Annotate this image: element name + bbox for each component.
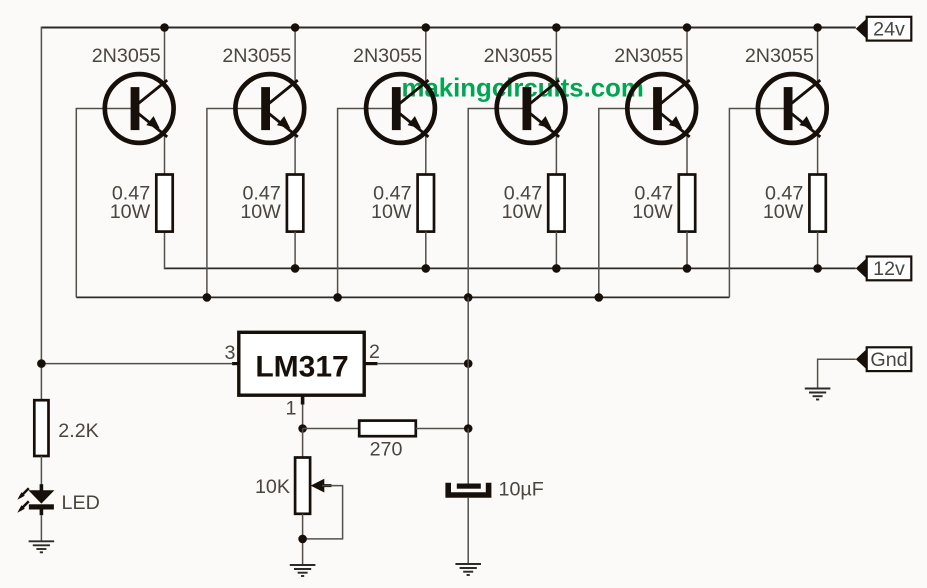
- label R2 0.47 10W: [240, 183, 281, 224]
- wire pin2 node to adj node: [467, 364, 469, 429]
- resistor R8 2.2K: [34, 400, 48, 456]
- resistor R3 0.47 10W: [418, 175, 434, 232]
- wire Q2 emitter: [294, 134, 296, 174]
- wire pot top: [302, 429, 304, 458]
- wire Q3 collector: [425, 28, 427, 83]
- svg-text:LM317: LM317: [255, 351, 348, 384]
- junction Q6 collector on 24v rail: [813, 23, 822, 32]
- resistor R5 0.47 10W: [679, 175, 695, 232]
- wire Q1 emitter: [164, 134, 166, 174]
- wire Q4 base: [468, 109, 527, 298]
- capacitor C1 10uF: [448, 483, 488, 495]
- junction Q5 base on base bus: [595, 293, 604, 302]
- svg-text:10W: 10W: [240, 201, 281, 223]
- junction Q1 collector on 24v rail: [160, 23, 169, 32]
- svg-text:2N3055: 2N3055: [745, 45, 814, 67]
- regulator U1 LM317: [239, 332, 364, 395]
- wire capacitor to ground: [467, 498, 469, 564]
- wire pin 3 to left vertical: [41, 363, 232, 365]
- wire R8 to LED: [40, 456, 42, 491]
- svg-text:2N3055: 2N3055: [614, 45, 683, 67]
- wire base bus to pin2 node: [467, 297, 469, 363]
- terminal Gnd: [856, 347, 912, 371]
- wire R7 to adj node: [416, 428, 468, 430]
- svg-text:12v: 12v: [873, 258, 905, 280]
- LED D1: [17, 484, 54, 515]
- wire LED to ground: [40, 515, 42, 541]
- junction R6 on 12v rail: [813, 264, 822, 273]
- label R3 0.47 10W: [371, 183, 412, 224]
- svg-text:Gnd: Gnd: [870, 349, 907, 371]
- transistor Q6 2N3055: [758, 74, 827, 143]
- wire Gnd terminal lead: [818, 359, 856, 388]
- wire Q6 base: [729, 109, 788, 298]
- transistor Q5 2N3055: [627, 74, 696, 143]
- pin 3 stub of U1: [232, 362, 239, 365]
- svg-text:LED: LED: [62, 492, 100, 514]
- ground at Gnd terminal: [805, 389, 831, 400]
- svg-text:2N3055: 2N3055: [484, 45, 553, 67]
- wire 24v top rail: [41, 27, 855, 29]
- wire base bus: [76, 296, 729, 298]
- label R4 0.47 10W: [502, 183, 543, 224]
- junction Q5 collector on 24v rail: [683, 23, 692, 32]
- junction R7 adj node: [464, 424, 473, 433]
- resistor R1 0.47 10W: [156, 175, 172, 232]
- junction R3 on 12v rail: [422, 264, 431, 273]
- wire Q1 collector: [164, 28, 166, 83]
- wire R6 to 12v rail: [817, 232, 819, 269]
- junction Q3 base on base bus: [333, 293, 342, 302]
- potentiometer VR1 10K body: [295, 458, 310, 514]
- wire 12v emitter rail: [165, 267, 856, 269]
- label R6 0.47 10W: [763, 183, 804, 224]
- potentiometer VR1 wiper: [303, 479, 343, 539]
- pin 1 stub of U1: [301, 395, 305, 404]
- terminal 24v: [856, 17, 912, 41]
- junction pin 1 / pot node: [298, 424, 307, 433]
- svg-text:10K: 10K: [255, 476, 290, 498]
- junction Q3 collector on 24v rail: [422, 23, 431, 32]
- junction R5 on 12v rail: [683, 264, 692, 273]
- junction Q2 base on base bus: [203, 293, 212, 302]
- wire Q5 collector: [686, 28, 688, 83]
- wire R2 to 12v rail: [294, 232, 296, 269]
- wire R5 to 12v rail: [686, 232, 688, 269]
- wire pin 1 down to adj rail: [302, 405, 304, 429]
- svg-text:2: 2: [369, 341, 380, 363]
- wire Q6 emitter: [817, 134, 819, 174]
- svg-text:24v: 24v: [873, 19, 905, 41]
- resistor R6 0.47 10W: [809, 175, 825, 232]
- junction R4 on 12v rail: [552, 264, 561, 273]
- svg-text:1: 1: [286, 398, 297, 420]
- resistor R7 270: [359, 421, 416, 437]
- wire R4 to 12v rail: [555, 232, 557, 269]
- junction R2 on 12v rail: [291, 264, 300, 273]
- wire Q6 collector: [817, 28, 819, 83]
- svg-text:10W: 10W: [632, 201, 673, 223]
- wire Q5 emitter: [686, 134, 688, 174]
- wire Q1 base: [76, 109, 135, 298]
- wire emitter of Q1 corner drop: [164, 232, 166, 270]
- wire Q4 emitter: [555, 134, 557, 174]
- svg-text:10µF: 10µF: [499, 479, 544, 501]
- label R1 0.47 10W: [110, 183, 151, 224]
- wire Q3 base: [338, 109, 397, 298]
- wire Q2 base: [207, 109, 266, 298]
- svg-text:3: 3: [225, 342, 236, 364]
- svg-text:2N3055: 2N3055: [92, 45, 161, 67]
- wire pot bottom: [302, 514, 304, 565]
- wire Q2 collector: [294, 28, 296, 83]
- svg-text:2N3055: 2N3055: [353, 45, 422, 67]
- transistor Q3 2N3055: [366, 74, 435, 143]
- junction Q4 base on base bus: [464, 293, 473, 302]
- transistor Q4 2N3055: [497, 74, 566, 143]
- svg-text:10W: 10W: [502, 201, 543, 223]
- wire Q3 emitter: [425, 134, 427, 174]
- wire pin1 node to R7: [303, 428, 360, 430]
- resistor R4 0.47 10W: [548, 175, 564, 232]
- wire pin 2 to output node: [377, 363, 468, 365]
- junction pin3 node on left vertical: [37, 359, 46, 368]
- junction Q2 collector on 24v rail: [291, 23, 300, 32]
- svg-text:2.2K: 2.2K: [58, 420, 99, 442]
- svg-text:2N3055: 2N3055: [222, 45, 291, 67]
- junction pin 2 output node: [464, 359, 473, 368]
- wire adj node to capacitor: [467, 429, 469, 484]
- terminal 12v: [856, 257, 912, 281]
- junction Q4 collector on 24v rail: [552, 23, 561, 32]
- wire Q4 collector: [555, 28, 557, 83]
- ground at LED: [29, 541, 55, 552]
- resistor R2 0.47 10W: [287, 175, 303, 232]
- svg-text:10W: 10W: [110, 201, 151, 223]
- label R5 0.47 10W: [632, 183, 673, 224]
- junction pot wiper to bottom: [298, 535, 307, 544]
- wire R3 to 12v rail: [425, 232, 427, 269]
- pin 2 stub of U1: [364, 362, 377, 365]
- ground at potentiometer: [290, 565, 316, 576]
- transistor Q2 2N3055: [235, 74, 304, 143]
- wire left vertical (24v rail to 2.2K): [40, 27, 42, 401]
- svg-text:270: 270: [370, 439, 403, 461]
- wire Q5 base: [599, 109, 658, 298]
- ground at capacitor: [455, 564, 481, 575]
- svg-text:10W: 10W: [371, 201, 412, 223]
- transistor Q1 2N3055: [105, 74, 174, 143]
- svg-text:10W: 10W: [763, 201, 804, 223]
